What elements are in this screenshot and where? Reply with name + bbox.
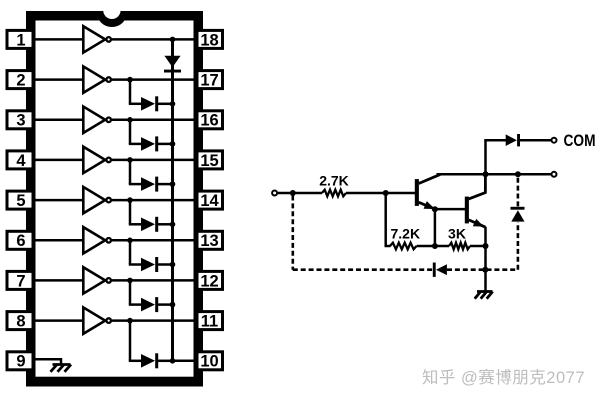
svg-text:7: 7	[16, 272, 25, 290]
node R3/emitter junction	[483, 243, 489, 249]
wire emitter node to ground	[484, 246, 487, 292]
pin 3	[7, 111, 33, 129]
diode D7 (channel 7 clamp, pointing right)	[141, 298, 155, 312]
wire dashed input feedback down	[291, 196, 294, 270]
svg-text:16: 16	[200, 112, 218, 130]
wire input pin 8 to inverter	[33, 319, 82, 322]
diode D4 (channel 4 clamp, pointing right)	[141, 177, 155, 191]
wire inverter 8 output to pin 11	[112, 319, 197, 322]
wire input pin 5 to inverter	[33, 199, 82, 202]
wire dashed right up	[517, 222, 520, 270]
wire inverter 5 output to pin 14	[112, 199, 197, 202]
svg-text:14: 14	[200, 192, 219, 210]
wire inverter 3 output to pin 16	[112, 119, 197, 122]
svg-text:6: 6	[16, 232, 25, 250]
diode D5 (channel 5 clamp, pointing right)	[141, 218, 155, 232]
wire Q2 emitter down to R3 node	[484, 227, 487, 246]
svg-text:COM: COM	[564, 132, 596, 150]
IC package U1 body	[26, 11, 203, 387]
wire dashed clamp to output rail	[517, 177, 520, 206]
transistor Q1 base bar	[415, 179, 419, 206]
wire channel 8 diode stub	[129, 321, 132, 361]
wire R1 to Q1 base	[346, 192, 416, 195]
wire Q1 emitter to Q2 base	[435, 208, 465, 211]
svg-text:17: 17	[200, 72, 218, 90]
wire channel 2 diode stub	[129, 80, 132, 104]
svg-text:7.2K: 7.2K	[391, 225, 421, 241]
svg-text:8: 8	[16, 313, 25, 331]
resistor R1 2.7K	[322, 190, 346, 197]
wire inverter 6 output to pin 13	[112, 239, 197, 242]
pin 5	[7, 191, 33, 209]
resistor R3 3K	[449, 243, 470, 250]
wire channel 4 diode stub	[129, 160, 132, 184]
node COM bus to pin 10	[170, 358, 176, 364]
wire base node down to resistor row	[434, 209, 437, 246]
wire input pin 7 to inverter	[33, 279, 82, 282]
svg-text:5: 5	[16, 192, 25, 210]
wire R3 to emitter node	[470, 245, 486, 248]
wire inverter 4 output to pin 15	[112, 159, 197, 162]
diode D1 (channel 1 clamp, pointing down)	[164, 56, 180, 67]
svg-text:18: 18	[200, 31, 218, 49]
node Q1 emitter / Q2 base	[432, 206, 438, 212]
node output rail / COM branch	[483, 171, 489, 177]
pin 18	[197, 30, 223, 48]
wire input pin 6 to inverter	[33, 239, 82, 242]
pin 17	[197, 71, 223, 89]
node output rail / clamp branch	[515, 171, 521, 177]
terminal COM (open circle)	[552, 138, 557, 143]
wire channel 5 diode stub	[129, 200, 132, 224]
svg-text:知乎 @赛博朋克2077: 知乎 @赛博朋克2077	[422, 367, 585, 387]
diode D9 (COM diode, pointing right)	[506, 134, 517, 146]
pin 6	[7, 231, 33, 249]
node D5 to COM bus	[170, 222, 176, 228]
wire input to R1	[278, 192, 322, 195]
svg-text:1: 1	[16, 31, 25, 49]
node channel 5 output junction	[127, 197, 133, 203]
node channel 6 output junction	[127, 238, 133, 244]
node D7 to COM bus	[170, 302, 176, 308]
svg-text:15: 15	[200, 152, 218, 170]
ground (pin 9 chassis ground)	[51, 365, 72, 372]
wire channel 3 diode stub	[129, 120, 132, 144]
node channel 7 output junction	[127, 278, 133, 284]
pin 9	[7, 352, 33, 370]
package pin-1 notch	[96, 12, 127, 28]
wire channel 7 diode stub	[129, 280, 132, 304]
wire pin 9 to ground	[33, 358, 61, 361]
pin 13	[197, 231, 223, 249]
svg-text:13: 13	[200, 232, 218, 250]
diode D8 (channel 8 clamp, pointing right)	[141, 354, 155, 368]
inverter U1A	[83, 26, 105, 52]
svg-text:2.7K: 2.7K	[319, 173, 349, 189]
wire dashed bottom run (right)	[447, 268, 518, 271]
node ground / dashed crossing	[482, 267, 488, 273]
pin 16	[197, 111, 223, 129]
wire COM bus to pin 10	[173, 360, 198, 363]
svg-text:3: 3	[16, 112, 25, 130]
resistor R2 7.2K	[390, 243, 417, 250]
inverter U1B	[83, 66, 105, 92]
wire inverter 7 output to pin 12	[112, 279, 197, 282]
pin 11	[197, 312, 223, 330]
wire COM diode to COM terminal	[520, 139, 551, 142]
wire channel 6 diode stub	[129, 240, 132, 264]
pin 8	[7, 312, 33, 330]
node D3 to COM bus	[170, 141, 176, 147]
inverter U1G	[83, 267, 105, 293]
inverter U1C	[83, 107, 105, 133]
wire R2 to R3	[417, 245, 450, 248]
pin 12	[197, 271, 223, 289]
node channel 8 output junction	[127, 318, 133, 324]
pin 1	[7, 30, 33, 48]
pin 15	[197, 151, 223, 169]
wire inverter 1 output to pin 18	[112, 38, 197, 41]
wire inverter 2 output to pin 17	[112, 78, 197, 81]
pin 4	[7, 151, 33, 169]
wire input pin 3 to inverter	[33, 119, 82, 122]
svg-text:4: 4	[16, 152, 26, 170]
svg-text:11: 11	[201, 313, 218, 331]
inverter U1F	[83, 227, 105, 253]
diode D6 (channel 6 clamp, pointing right)	[141, 258, 155, 272]
node channel 1 output junction	[170, 37, 176, 43]
transistor Q2 emitter	[469, 220, 486, 227]
svg-text:2: 2	[16, 72, 25, 90]
wire input pin 1 to inverter	[33, 38, 82, 41]
node D6 to COM bus	[170, 262, 176, 268]
wire junction down to R2	[384, 193, 387, 246]
wire output rail	[437, 173, 552, 176]
wire COM branch up	[484, 140, 487, 174]
svg-text:10: 10	[200, 353, 218, 371]
pin 7	[7, 271, 33, 289]
wire COM bus (to pin 10)	[171, 39, 174, 360]
diode D10 (substrate diode, pointing left)	[433, 263, 436, 277]
terminal input (open circle)	[272, 191, 277, 196]
svg-text:3K: 3K	[448, 225, 466, 241]
diode D11 (output clamp, pointing up)	[511, 210, 524, 221]
inverter U1E	[83, 187, 105, 213]
inverter U1H	[83, 307, 105, 333]
pin 2	[7, 71, 33, 89]
transistor Q2 collector	[469, 193, 486, 199]
wire input pin 2 to inverter	[33, 78, 82, 81]
node channel 3 output junction	[127, 117, 133, 123]
wire input pin 4 to inverter	[33, 159, 82, 162]
transistor Q2 base bar	[465, 197, 469, 224]
wire dashed bottom run (left)	[293, 268, 433, 271]
pin 14	[197, 191, 223, 209]
node input junction	[290, 190, 296, 196]
node R1/R2 junction	[383, 190, 389, 196]
ground (chassis ground)	[475, 292, 493, 299]
svg-text:12: 12	[200, 272, 218, 290]
diode D2 (channel 2 clamp, pointing right)	[141, 97, 155, 111]
node channel 4 output junction	[127, 157, 133, 163]
inverter U1D	[83, 147, 105, 173]
node D4 to COM bus	[170, 181, 176, 187]
pin 10	[197, 352, 223, 370]
node R2/R3/base junction	[432, 243, 438, 249]
diode D3 (channel 3 clamp, pointing right)	[141, 137, 155, 151]
transistor Q1 collector	[419, 174, 441, 183]
node D2 to COM bus	[170, 101, 176, 107]
node channel 2 output junction	[127, 77, 133, 83]
svg-text:9: 9	[16, 353, 25, 371]
transistor Q1 emitter	[419, 202, 434, 208]
terminal output (open circle)	[552, 172, 557, 177]
